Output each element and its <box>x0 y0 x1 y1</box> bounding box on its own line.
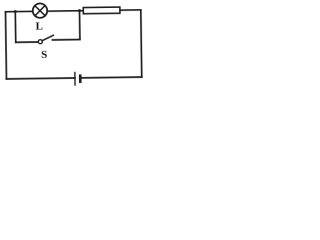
svg-text:S: S <box>41 49 47 61</box>
svg-text:L: L <box>35 20 43 32</box>
